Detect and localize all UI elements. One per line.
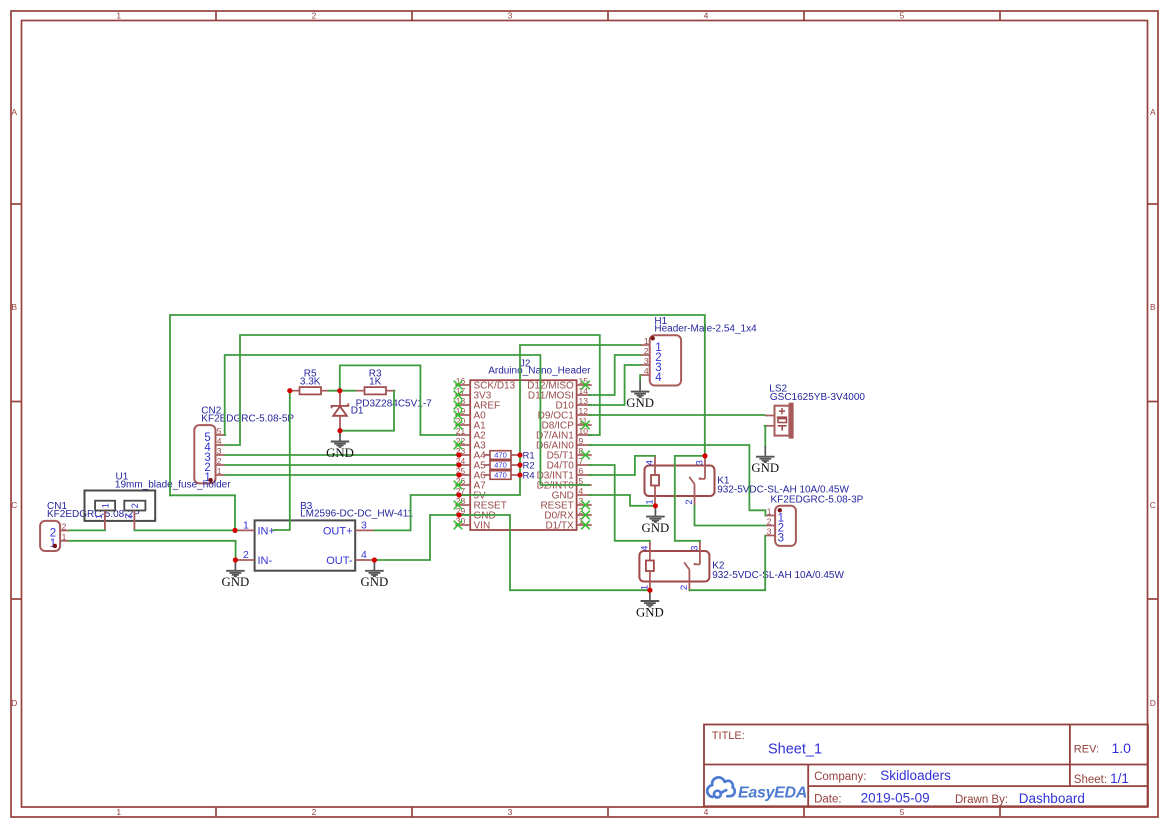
svg-text:GND: GND bbox=[222, 575, 250, 589]
svg-text:Date:: Date: bbox=[814, 793, 842, 805]
svg-text:2: 2 bbox=[679, 585, 690, 590]
svg-text:932-5VDC-SL-AH 10A/0.45W: 932-5VDC-SL-AH 10A/0.45W bbox=[712, 570, 844, 581]
svg-text:3.3K: 3.3K bbox=[300, 377, 321, 388]
svg-text:Sheet:: Sheet: bbox=[1074, 774, 1107, 786]
svg-text:A: A bbox=[1150, 107, 1156, 117]
svg-text:VIN: VIN bbox=[474, 521, 491, 532]
svg-text:1.0: 1.0 bbox=[1112, 740, 1132, 756]
svg-text:1: 1 bbox=[94, 514, 104, 519]
svg-text:GND: GND bbox=[751, 461, 779, 475]
svg-text:1: 1 bbox=[644, 336, 649, 346]
svg-text:2: 2 bbox=[312, 11, 317, 21]
svg-text:3: 3 bbox=[361, 520, 367, 532]
svg-text:2: 2 bbox=[123, 514, 133, 519]
svg-text:1: 1 bbox=[767, 507, 772, 517]
svg-text:REV:: REV: bbox=[1074, 743, 1099, 755]
svg-text:1: 1 bbox=[116, 11, 121, 21]
svg-text:Company:: Company: bbox=[814, 771, 866, 783]
svg-text:A: A bbox=[11, 107, 17, 117]
svg-text:C: C bbox=[11, 500, 17, 510]
svg-text:4: 4 bbox=[644, 366, 649, 376]
svg-text:3: 3 bbox=[695, 460, 706, 465]
svg-text:OUT+: OUT+ bbox=[323, 526, 353, 538]
svg-text:2: 2 bbox=[644, 346, 649, 356]
svg-text:2: 2 bbox=[217, 456, 222, 466]
svg-text:D1/TX: D1/TX bbox=[545, 521, 574, 532]
svg-text:R4: R4 bbox=[523, 470, 535, 481]
svg-text:1K: 1K bbox=[369, 377, 382, 388]
svg-text:KF2EDGRC-5.08-3P: KF2EDGRC-5.08-3P bbox=[771, 495, 864, 506]
svg-text:EasyEDA: EasyEDA bbox=[738, 784, 807, 801]
svg-text:9: 9 bbox=[579, 436, 584, 446]
svg-text:D1: D1 bbox=[351, 405, 364, 416]
svg-text:1/1: 1/1 bbox=[1110, 771, 1129, 786]
svg-text:4: 4 bbox=[704, 11, 709, 21]
svg-text:3: 3 bbox=[689, 546, 700, 551]
svg-text:19mm_blade_fuse_holder: 19mm_blade_fuse_holder bbox=[115, 480, 231, 491]
svg-text:2: 2 bbox=[767, 517, 772, 527]
svg-text:6: 6 bbox=[579, 466, 584, 476]
svg-text:3: 3 bbox=[217, 446, 222, 456]
svg-text:4: 4 bbox=[579, 486, 584, 496]
svg-text:5: 5 bbox=[217, 426, 222, 436]
svg-text:2: 2 bbox=[243, 549, 249, 561]
svg-text:GND: GND bbox=[361, 575, 389, 589]
svg-text:470: 470 bbox=[494, 451, 507, 460]
svg-text:12: 12 bbox=[579, 406, 589, 416]
svg-text:GND: GND bbox=[326, 446, 354, 460]
svg-text:1: 1 bbox=[243, 520, 249, 532]
svg-text:3: 3 bbox=[778, 533, 784, 545]
svg-text:4: 4 bbox=[704, 807, 709, 817]
svg-text:Skidloaders: Skidloaders bbox=[880, 768, 951, 783]
svg-text:GND: GND bbox=[626, 396, 654, 410]
svg-text:1: 1 bbox=[217, 466, 222, 476]
svg-text:LM2596-DC-DC_HW-411: LM2596-DC-DC_HW-411 bbox=[300, 508, 413, 519]
svg-text:470: 470 bbox=[494, 461, 507, 470]
svg-text:8: 8 bbox=[579, 446, 584, 456]
svg-text:3: 3 bbox=[579, 496, 584, 506]
svg-text:4: 4 bbox=[217, 436, 222, 446]
svg-text:Drawn By:: Drawn By: bbox=[955, 794, 1008, 806]
svg-text:932-5VDC-SL-AH 10A/0.45W: 932-5VDC-SL-AH 10A/0.45W bbox=[717, 485, 849, 496]
svg-text:3: 3 bbox=[644, 356, 649, 366]
svg-text:KF2EDGRC-5.08-5P: KF2EDGRC-5.08-5P bbox=[201, 413, 294, 424]
svg-text:4: 4 bbox=[655, 372, 662, 384]
svg-text:3: 3 bbox=[508, 11, 513, 21]
svg-text:5: 5 bbox=[900, 807, 905, 817]
svg-text:D: D bbox=[1150, 698, 1156, 708]
svg-text:C: C bbox=[1150, 500, 1156, 510]
svg-text:Sheet_1: Sheet_1 bbox=[768, 742, 822, 758]
svg-text:2: 2 bbox=[130, 503, 141, 508]
svg-text:IN-: IN- bbox=[258, 555, 273, 567]
svg-text:4: 4 bbox=[645, 460, 656, 465]
svg-text:470: 470 bbox=[494, 471, 507, 480]
svg-text:1: 1 bbox=[100, 503, 111, 508]
svg-text:3: 3 bbox=[508, 807, 513, 817]
svg-text:IN+: IN+ bbox=[258, 526, 275, 538]
svg-text:Dashboard: Dashboard bbox=[1019, 791, 1085, 806]
svg-text:Header-Male-2.54_1x4: Header-Male-2.54_1x4 bbox=[654, 324, 757, 335]
svg-text:4: 4 bbox=[361, 549, 367, 561]
svg-text:GND: GND bbox=[642, 521, 670, 535]
svg-text:D: D bbox=[11, 698, 17, 708]
svg-text:GSC1625YB-3V4000: GSC1625YB-3V4000 bbox=[770, 392, 866, 403]
svg-text:3: 3 bbox=[767, 527, 772, 537]
svg-text:2: 2 bbox=[62, 522, 67, 532]
svg-text:4: 4 bbox=[639, 546, 650, 551]
svg-text:B: B bbox=[11, 302, 17, 312]
svg-text:2: 2 bbox=[312, 807, 317, 817]
svg-text:1: 1 bbox=[116, 807, 121, 817]
svg-text:GND: GND bbox=[636, 605, 664, 619]
svg-text:2: 2 bbox=[684, 499, 695, 504]
svg-text:2019-05-09: 2019-05-09 bbox=[861, 790, 930, 805]
svg-text:5: 5 bbox=[900, 11, 905, 21]
svg-text:13: 13 bbox=[579, 396, 589, 406]
svg-text:OUT-: OUT- bbox=[326, 555, 353, 567]
svg-text:B: B bbox=[1150, 302, 1156, 312]
svg-text:TITLE:: TITLE: bbox=[712, 730, 745, 742]
svg-text:1: 1 bbox=[62, 532, 67, 542]
